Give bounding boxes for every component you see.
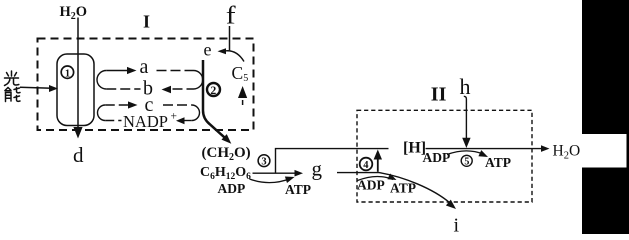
- svg-text:ADP: ADP: [357, 178, 385, 193]
- svg-text:ATP: ATP: [485, 155, 511, 170]
- svg-text:+: +: [171, 111, 178, 123]
- svg-text:i: i: [454, 215, 460, 235]
- svg-text:II: II: [431, 84, 447, 106]
- svg-text:(CH2O): (CH2O): [202, 145, 251, 163]
- svg-text:a: a: [140, 56, 149, 78]
- svg-text:ATP: ATP: [390, 181, 416, 196]
- svg-text:ATP: ATP: [285, 182, 311, 197]
- svg-text:2: 2: [211, 85, 217, 97]
- svg-text:d: d: [73, 143, 84, 167]
- svg-text:ADP: ADP: [423, 150, 451, 165]
- svg-text:g: g: [312, 157, 323, 181]
- svg-text:4: 4: [363, 160, 369, 171]
- svg-text:5: 5: [464, 157, 469, 168]
- svg-text:e: e: [204, 40, 212, 60]
- svg-text:h: h: [460, 74, 471, 99]
- svg-text:C: C: [232, 63, 244, 83]
- svg-text:1: 1: [65, 68, 70, 79]
- svg-text:3: 3: [261, 157, 266, 168]
- svg-text:NADP: NADP: [123, 112, 168, 131]
- svg-text:ADP: ADP: [218, 181, 246, 196]
- svg-text:I: I: [143, 12, 150, 32]
- svg-text:C6H12O6: C6H12O6: [200, 165, 251, 182]
- svg-text:f: f: [226, 2, 237, 29]
- svg-text:5: 5: [243, 73, 248, 84]
